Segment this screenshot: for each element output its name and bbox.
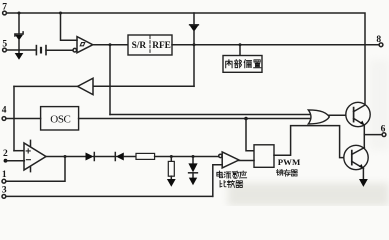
wire R1 to comparator (155, 156, 219, 158)
ground arrow under zener / pin5 node (15, 50, 24, 60)
label 比较器 (220, 180, 243, 187)
block U6 PWM latch (254, 145, 301, 176)
wire VCC top rail from pin 7 to output transistor collector (5, 13, 366, 105)
transistor Q2 lower NPN (344, 145, 368, 169)
pin 1 (2, 170, 7, 183)
pin 5 (2, 40, 7, 52)
wire D2 to R1 (124, 156, 136, 158)
wire feedback to error amp non-inverting input (14, 150, 24, 152)
svg-text:1: 1 (2, 170, 7, 180)
wire UVLO branch down (109, 45, 111, 115)
svg-text:OSC: OSC (50, 114, 70, 126)
pin 2 (3, 149, 8, 163)
wire U1 output to S/R block (93, 44, 128, 46)
resistor R2 to ground (167, 157, 176, 187)
node junction on VCC rail above U1 (59, 12, 62, 15)
wire error amp output (46, 156, 86, 158)
wire VREF to internal bias block (239, 45, 241, 56)
wire D1 to D2 (94, 156, 116, 158)
wire OSC output to OR gate input (79, 118, 311, 120)
svg-text:PWM: PWM (278, 157, 301, 167)
svg-text:5: 5 (2, 40, 7, 50)
op-amp U1 UVLO comparator (73, 37, 93, 53)
svg-text:S/R: S/R (132, 41, 147, 51)
wire OR gate output to upper transistor base (329, 114, 354, 116)
svg-text:2: 2 (3, 149, 8, 159)
diode D2 (reversed) (115, 153, 124, 161)
zener diode VZ2 (VCC to VREF) (190, 13, 199, 45)
zener diode VZ1 (VCC clamp) (15, 13, 23, 50)
diode D3 to ground (188, 157, 197, 186)
wire pin 1 comp feedback (6, 157, 65, 182)
node junction on OSC line (244, 117, 248, 121)
wire clock branch down to PWM latch (246, 119, 254, 151)
wire Q2 emitter to ground (362, 168, 364, 179)
wire to pin 6 (364, 134, 382, 136)
wire PWM latch output up and over to lower transistor base (274, 126, 352, 158)
wire buffer output left (14, 85, 78, 87)
pin 7 (2, 3, 7, 15)
op-amp U7 error amplifier (24, 140, 46, 171)
node junction UVLO output branch (109, 43, 112, 46)
pin 3 (2, 186, 7, 199)
block U2 S/R RFE (128, 35, 172, 55)
wire Q1 emitter to Q2 collector (363, 125, 365, 148)
node junction on VREF rail above internal bias (239, 43, 242, 46)
wire S/R output rail to pin 8 (172, 44, 379, 46)
wire comparator inverting input from pin 3 rail (213, 165, 222, 197)
battery B1 (internal reference) (36, 46, 46, 55)
wire UVLO branch to OR gate input (110, 114, 311, 116)
node junction error amp output (64, 155, 67, 158)
wire pin 3 current sense rail (6, 195, 213, 197)
wire VREF node down to buffer (193, 45, 195, 87)
svg-text:3: 3 (2, 186, 7, 196)
pin 6 (381, 125, 386, 137)
wire feedback down left side (13, 86, 15, 150)
scan shading bottom right (228, 60, 389, 206)
svg-text:6: 6 (381, 125, 386, 135)
buffer U3 (left pointing triangle) (78, 78, 93, 94)
pin 4 (2, 106, 7, 121)
svg-text:RFE: RFE (152, 41, 171, 51)
diode D1 (86, 153, 95, 161)
wire into buffer input (93, 85, 194, 87)
resistor R1 (136, 153, 155, 159)
wire battery to UVLO comparator inverting input (46, 49, 73, 51)
node junction VREF rail at zener column (193, 43, 196, 46)
svg-text:8: 8 (376, 35, 381, 45)
label 电流感应 (217, 171, 247, 178)
transistor Q1 upper NPN (346, 102, 370, 126)
node junction on VCC rail above zener (18, 12, 21, 15)
wire pin 4 to OSC (6, 118, 41, 120)
ground output stage (359, 179, 368, 187)
op-amp U8 current sense comparator (219, 152, 239, 168)
wire pin 2 to error amp inverting input (6, 160, 25, 162)
wire VCC rail to U1 non-inverting input (61, 13, 78, 40)
pin 8 (376, 35, 383, 47)
wire pin5 to battery (6, 49, 36, 51)
node junction at R2 (170, 155, 173, 158)
svg-text:4: 4 (2, 106, 7, 116)
OR gate U9 (308, 110, 329, 124)
block U5 oscillator OSC (41, 107, 79, 130)
wire comparator output to PWM latch (239, 160, 254, 162)
svg-text:7: 7 (2, 3, 7, 13)
block U4 internal bias 内部偏置 (223, 56, 262, 73)
node junction at D3 (192, 155, 195, 158)
